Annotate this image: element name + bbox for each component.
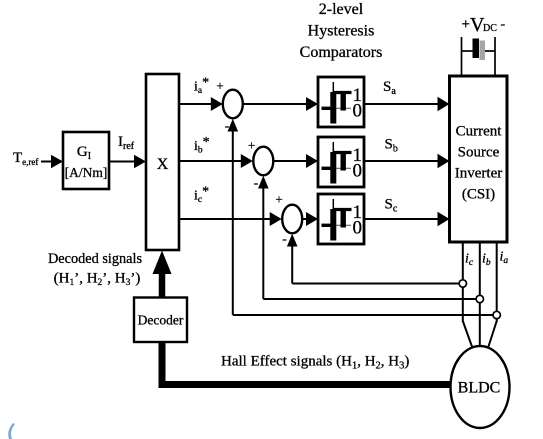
- svg-text:-: -: [254, 176, 259, 191]
- svg-text:+: +: [216, 78, 223, 93]
- svg-text:[A/Nm]: [A/Nm]: [65, 165, 108, 180]
- svg-text:Inverter: Inverter: [455, 166, 502, 182]
- svg-text:+: +: [275, 192, 282, 207]
- svg-text:2-level: 2-level: [319, 1, 364, 18]
- svg-text:+: +: [248, 138, 255, 153]
- svg-text:X: X: [157, 156, 169, 173]
- svg-text:(CSI): (CSI): [462, 187, 495, 203]
- svg-text:-: -: [225, 119, 230, 134]
- svg-text:DC: DC: [483, 23, 497, 34]
- svg-text:Decoder: Decoder: [138, 313, 184, 328]
- svg-text:Source: Source: [458, 145, 500, 161]
- svg-text:Decoded signals: Decoded signals: [48, 251, 143, 267]
- svg-text:Current: Current: [456, 124, 503, 140]
- svg-text:Comparators: Comparators: [300, 44, 383, 61]
- svg-text:-: -: [282, 232, 287, 247]
- svg-text:-: -: [501, 17, 506, 32]
- svg-text:+: +: [462, 17, 470, 33]
- svg-text:Hall Effect signals (H1, H2, H: Hall Effect signals (H1, H2, H3): [221, 354, 409, 372]
- svg-text:BLDC: BLDC: [458, 380, 501, 397]
- svg-text:Hysteresis: Hysteresis: [308, 23, 375, 40]
